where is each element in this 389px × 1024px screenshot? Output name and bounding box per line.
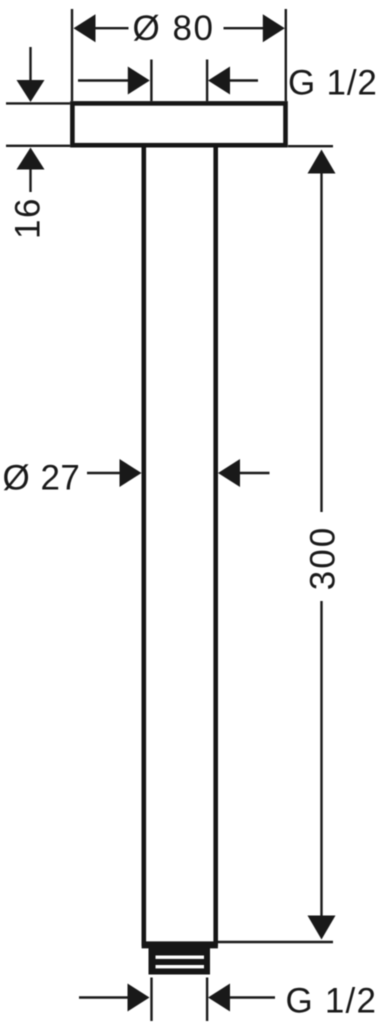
dimension Ø80: line left segment [90,27,129,29]
dimension 16: arrowhead up [17,148,45,170]
dimension 300: arrowhead up [308,150,336,174]
dimension G1/2 bottom: extension line left [150,978,152,1022]
threaded nipple G 1/2 (bottom) [149,944,211,975]
dimension 16: extension line bottom [6,145,70,147]
dimension Ø80: extension line left [71,9,73,101]
flange (ceiling plate) [72,103,285,145]
pipe bottom shoulder [142,941,218,948]
dimension Ø27: arrowhead left [120,459,142,487]
dimension G1/2 top: tail line left [78,79,130,81]
dimension G1/2 top: arrowhead left [128,67,150,95]
pipe wall left [142,146,147,946]
dimension 300: extension line bottom [218,941,333,943]
nipple thread relief line 1 [156,956,205,959]
svg-text:Ø 27: Ø 27 [3,459,81,498]
dimension Ø80: extension line right [285,9,287,101]
dimension G1/2 top: extension line left [150,60,152,102]
svg-text:G 1/2: G 1/2 [288,64,378,103]
dimension 16: line upper segment [29,47,31,85]
dimension Ø80: arrowhead left [74,14,96,42]
nipple thread relief line 2 [156,965,205,968]
svg-text:300: 300 [304,526,343,590]
dimension G1/2 bottom: arrowhead left [128,984,150,1012]
dimension G1/2 bottom: tail line left [79,996,130,998]
dimension Ø27: tail line left [87,472,125,474]
dimension G1/2 top: arrowhead right [208,67,230,95]
dimension G1/2 bottom: extension line right [206,978,208,1022]
dimension 16: arrowhead down [17,80,45,102]
dimension G1/2 top: extension line right [206,60,208,102]
dimension Ø80: arrowhead right [263,14,285,42]
dimension Ø80: line right segment [224,27,267,29]
dimension 300: line lower segment [320,601,322,919]
dimension 16: extension line top [6,102,70,104]
dimension Ø27: arrowhead right [218,459,240,487]
svg-text:Ø 80: Ø 80 [133,9,215,48]
dimension G1/2 top: tail line right [228,79,258,81]
dimension 300: line upper segment [320,170,322,512]
dimension 16: line lower segment [29,160,31,192]
svg-text:G 1/2: G 1/2 [286,982,378,1021]
dimension G1/2 bottom: tail line right [228,996,275,998]
dimension Ø27: tail line right [236,472,270,474]
dimension 300: extension line top [288,145,333,147]
svg-text:16: 16 [9,197,48,239]
pipe wall right [213,146,218,946]
dimension 300: arrowhead down [308,916,336,940]
dimension G1/2 bottom: arrowhead right [208,984,230,1012]
